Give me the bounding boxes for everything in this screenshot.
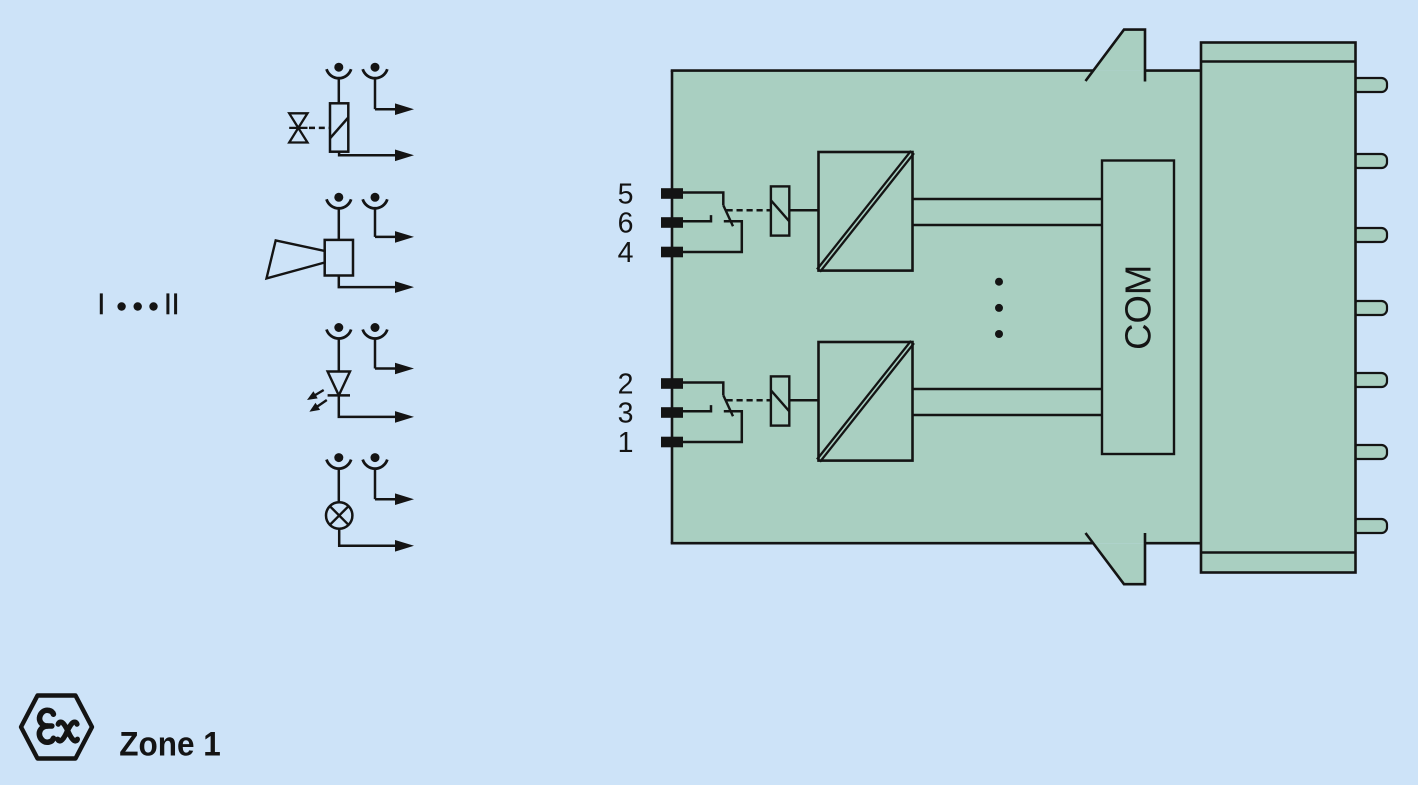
svg-text:4: 4: [618, 237, 634, 269]
wire: [339, 276, 398, 288]
output arrow: [395, 540, 414, 552]
terminal 2: [661, 378, 683, 389]
field terminal T2a: [327, 193, 352, 209]
wire: [338, 209, 341, 240]
wire: [374, 469, 377, 499]
wire: [682, 411, 742, 442]
galvanic isolation amplifier: [817, 151, 914, 272]
wire: [913, 414, 1103, 416]
terminal 4: [661, 247, 683, 258]
valve body: [289, 113, 307, 142]
field terminal T1b: [363, 63, 388, 79]
wire: [338, 78, 341, 103]
input interface element: [771, 376, 789, 425]
field terminal T1a: [327, 63, 352, 79]
galvanic isolation amplifier: [817, 341, 914, 462]
wire: [339, 395, 398, 417]
switch blade: [723, 205, 733, 226]
output arrow: [395, 493, 414, 505]
LED light arrow: [309, 400, 326, 412]
wire (dashed link): [727, 399, 771, 402]
output arrow: [395, 150, 414, 162]
svg-text:Zone 1: Zone 1: [119, 725, 221, 763]
bus connector pin 6: [1352, 445, 1387, 459]
horn driver box: [325, 240, 353, 276]
field terminal T3a: [327, 323, 352, 339]
wire (fixed contact): [682, 405, 711, 411]
wire: [789, 399, 818, 402]
wire: [338, 469, 341, 503]
svg-text:2: 2: [618, 369, 634, 401]
svg-text:5: 5: [618, 179, 634, 211]
svg-text:1: 1: [618, 427, 634, 459]
output arrow: [395, 363, 414, 375]
terminal 1: [661, 437, 683, 448]
output arrow: [395, 411, 414, 423]
terminal 3: [661, 407, 683, 418]
wire: [339, 529, 398, 546]
zone separator dots: [117, 302, 157, 310]
bus connector pin 2: [1352, 154, 1387, 168]
lamp E1: [326, 502, 352, 528]
wire: [374, 339, 377, 369]
output arrow: [395, 103, 414, 115]
housing break flag bottom: [1086, 533, 1146, 584]
wire: [339, 152, 398, 156]
bus connector pin 3: [1352, 228, 1387, 242]
LED D1: [328, 372, 350, 396]
zone separator mark II: [166, 293, 177, 314]
field terminal T4a: [327, 453, 352, 469]
wire (dashed link): [727, 209, 771, 212]
COM bus interface block: [1102, 161, 1174, 455]
wire: [682, 383, 723, 396]
bus connector pin 4: [1352, 301, 1387, 315]
svg-text:COM: COM: [1118, 265, 1159, 350]
input interface element: [771, 186, 789, 235]
output arrow: [395, 231, 414, 243]
bus connector housing: [1201, 43, 1356, 573]
solenoid coil Y1: [330, 103, 348, 151]
svg-text:3: 3: [618, 398, 634, 430]
wire: [374, 209, 377, 237]
wire: [913, 224, 1103, 226]
continuation dots: [995, 278, 1003, 338]
wire: [682, 221, 742, 252]
wire: [913, 388, 1103, 390]
LED light arrow: [307, 390, 324, 400]
switch blade: [723, 395, 733, 416]
field terminal T2b: [363, 193, 388, 209]
wire: [338, 339, 341, 372]
terminal 5: [661, 188, 683, 199]
output arrow: [395, 281, 414, 293]
wire: [682, 193, 723, 206]
wire: [789, 209, 818, 212]
module body outline: [671, 71, 1201, 544]
Ex hazardous area logo: [21, 696, 92, 759]
zone separator mark I: [100, 293, 103, 314]
wire: [913, 198, 1103, 200]
bus connector pin 5: [1352, 373, 1387, 387]
housing break flag top: [1086, 30, 1146, 82]
bus connector pin 7: [1352, 519, 1387, 533]
wire (fixed contact): [682, 215, 711, 221]
module body (isolated barrier housing): [672, 71, 1201, 544]
field terminal T4b: [363, 453, 388, 469]
horn bell: [267, 240, 325, 278]
terminal 6: [661, 217, 683, 228]
bus connector pin 1: [1352, 78, 1387, 92]
svg-text:6: 6: [618, 208, 634, 240]
field terminal T3b: [363, 323, 388, 339]
wire: [374, 78, 377, 109]
wire (dashed actuator link): [309, 127, 330, 130]
